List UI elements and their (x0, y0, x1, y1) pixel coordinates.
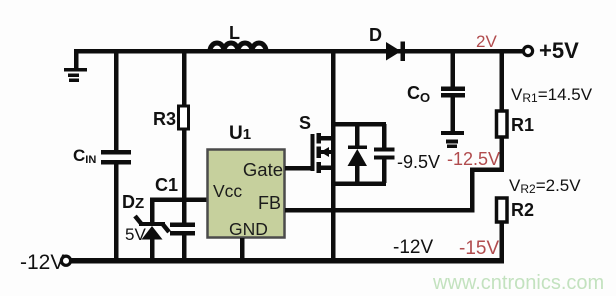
wire Co to ground (451, 97, 456, 131)
wire R3 to Vcc node (182, 129, 187, 223)
wire R1 branch (500, 51, 505, 111)
capacitor CO (441, 87, 465, 98)
wire Gate pin (285, 166, 312, 171)
svg-text:S: S (299, 113, 311, 133)
svg-text:R3: R3 (153, 109, 176, 129)
wire GND pin to bottom rail (240, 238, 245, 261)
svg-text:U1: U1 (229, 123, 251, 144)
wire bottom rail (71, 258, 504, 264)
capacitor CIN (101, 150, 131, 165)
svg-text:D: D (369, 25, 382, 45)
wire Cin branch lower (114, 164, 119, 260)
capacitor C1 (170, 223, 195, 236)
wire R3 branch upper (182, 51, 187, 107)
wire R1 to node (500, 137, 505, 172)
ground (input) (64, 68, 87, 82)
svg-text:5V: 5V (125, 225, 146, 244)
svg-text:-12V: -12V (20, 251, 64, 274)
ground (output) (441, 131, 464, 148)
svg-text:FB: FB (258, 193, 281, 213)
capacitor (snubber) (374, 124, 395, 183)
op-amp U1 (controller box) (208, 150, 285, 238)
wire snubber bottom (331, 182, 386, 187)
svg-text:R2: R2 (511, 200, 534, 220)
svg-text:-15V: -15V (459, 238, 499, 259)
svg-text:C1: C1 (155, 175, 178, 195)
diode (catch, anode down) (348, 124, 368, 183)
wire FB riser (470, 168, 475, 213)
resistor R3 (179, 106, 189, 129)
wire Cin branch upper (114, 51, 119, 151)
wire Co branch (451, 51, 456, 87)
svg-text:-12V: -12V (393, 237, 433, 258)
wire R2 to bottom rail (500, 222, 505, 262)
node +5V terminal (523, 46, 532, 55)
svg-text:GND: GND (229, 219, 268, 239)
svg-text:-9.5V: -9.5V (397, 152, 440, 172)
wire snubber top (331, 122, 386, 127)
svg-text:+5V: +5V (539, 38, 579, 63)
diode D (rectifier) (386, 42, 405, 62)
wire FB pin run (285, 208, 475, 213)
node -12V terminal (61, 256, 70, 265)
wire zener stub (150, 199, 155, 223)
transistor S (MOSFET) (311, 133, 336, 173)
svg-text:VR2=2.5V: VR2=2.5V (509, 176, 581, 196)
svg-text:2V: 2V (476, 32, 497, 51)
wire C1 to bottom rail (182, 235, 187, 261)
wire ground stub top-left (74, 49, 79, 69)
svg-text:Vcc: Vcc (213, 181, 242, 201)
wire node -12.5V horizontal (470, 168, 504, 173)
svg-text:-12.5V: -12.5V (447, 149, 500, 169)
svg-text:DZ: DZ (122, 192, 144, 212)
wire drain/source trunk (331, 51, 336, 261)
svg-text:www.cntronics.com: www.cntronics.com (432, 272, 604, 294)
svg-text:Gate: Gate (243, 159, 283, 180)
resistor R2 (497, 198, 508, 222)
svg-text:L: L (229, 23, 240, 43)
wire Vcc node (150, 198, 207, 203)
wire zener to bottom rail (150, 238, 155, 261)
inductor L (210, 43, 266, 51)
resistor R1 (497, 111, 508, 137)
svg-text:R1: R1 (511, 115, 534, 135)
zener diode DZ (135, 216, 169, 240)
wire top rail (74, 49, 524, 54)
